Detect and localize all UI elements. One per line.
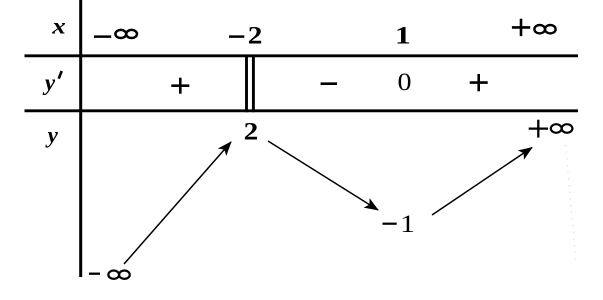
sign - second interval (321, 82, 337, 85)
faint dotted guide line (566, 145, 577, 262)
table vertical header line (79, 0, 82, 277)
y value -inf bottom left (89, 271, 130, 279)
x value -2 (229, 21, 262, 49)
svg-text:2: 2 (248, 21, 263, 49)
row label y' (42, 70, 62, 95)
svg-text:x: x (51, 14, 66, 39)
arrow rising 1 (124, 142, 231, 264)
svg-text:1: 1 (400, 209, 415, 238)
svg-text:y: y (42, 70, 56, 95)
arrow falling (268, 141, 378, 210)
svg-text:2: 2 (244, 117, 259, 145)
sign + third interval (470, 74, 488, 91)
table horizontal line top (25, 54, 579, 57)
sign + first interval (171, 78, 189, 94)
svg-text:0: 0 (397, 67, 411, 96)
svg-text:y: y (45, 122, 59, 147)
svg-text:1: 1 (395, 21, 411, 49)
y value +inf top right (529, 120, 573, 138)
x value +inf (512, 19, 556, 36)
arrow rising 2 (432, 148, 532, 216)
y min value -1 (383, 209, 415, 238)
x value -inf (94, 30, 137, 38)
table horizontal line bottom (25, 109, 579, 112)
double bar at x=-2 (247, 55, 254, 112)
